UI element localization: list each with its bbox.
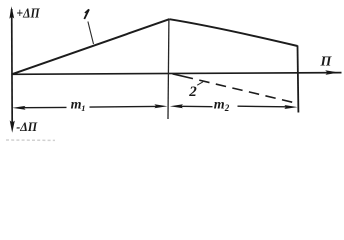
- m2 dimension line right part: [238, 105, 288, 108]
- vertical axis (ΔП axis): [11, 9, 14, 126]
- label 1: [84, 9, 89, 19]
- svg-text:-ΔП: -ΔП: [16, 119, 38, 134]
- leader line for label 1: [88, 22, 94, 45]
- svg-text:1: 1: [81, 103, 85, 113]
- svg-text:m: m: [214, 98, 225, 113]
- m1 dimension left arrowhead: [12, 106, 26, 110]
- svg-text:m: m: [71, 98, 82, 113]
- m2 dimension left arrowhead: [170, 104, 183, 108]
- m1 dimension right arrowhead: [154, 104, 167, 108]
- thin vertical line under peak: [167, 20, 170, 120]
- horizontal axis right arrowhead: [325, 70, 338, 75]
- dashed line 2: [173, 74, 298, 104]
- vertical axis top arrowhead: [9, 6, 14, 18]
- curve 1 descending top segment: [169, 19, 297, 46]
- right vertical drop of curve 1: [297, 46, 300, 113]
- m1 dimension line right part: [90, 105, 157, 108]
- svg-text:2: 2: [224, 103, 230, 113]
- m2 dimension line left part: [182, 105, 213, 107]
- leader line for label 2: [197, 82, 203, 85]
- horizontal axis (П axis): [12, 73, 342, 75]
- m1 dimension line left part: [24, 106, 67, 108]
- curve 1 rising segment: [12, 19, 170, 74]
- vertical axis bottom arrowhead: [10, 120, 15, 132]
- svg-text:П: П: [320, 55, 333, 70]
- svg-text:2: 2: [188, 84, 197, 100]
- faint scan streak bottom left: [6, 139, 55, 141]
- svg-text:+ΔП: +ΔП: [16, 7, 40, 22]
- m2 dimension right arrowhead: [284, 105, 297, 109]
